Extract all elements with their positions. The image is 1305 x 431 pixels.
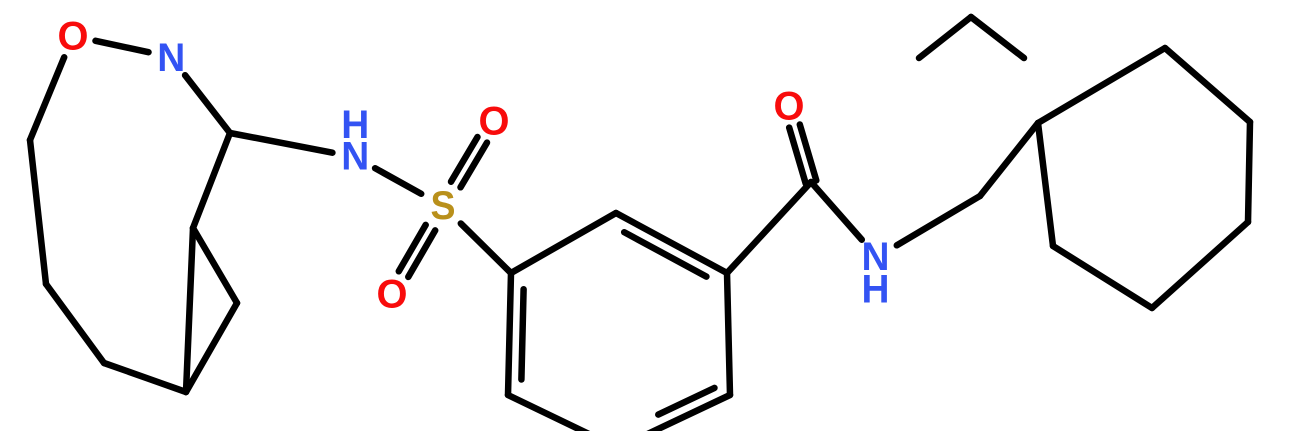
benzene inner D-E — [658, 388, 714, 415]
svg-text:N: N — [157, 36, 185, 80]
C=O amide double bond — [800, 125, 817, 181]
benzene bond A-B — [511, 213, 616, 273]
right ring bond 4-5 — [1152, 222, 1248, 308]
svg-text:O: O — [58, 15, 89, 59]
methyl zigzag left — [919, 17, 971, 58]
right ring bond 1-2 — [1038, 48, 1165, 123]
svg-text:H: H — [862, 268, 890, 312]
wire Y-B — [30, 140, 46, 284]
wire C3-NH1 — [230, 133, 332, 153]
wire N2-C3 — [185, 75, 230, 133]
wire ring-Cc — [727, 182, 811, 273]
svg-text:S: S — [431, 184, 456, 228]
svg-text:O: O — [377, 273, 408, 317]
benzene inner B-C — [624, 232, 706, 276]
wire D-F — [186, 303, 237, 392]
right ring bond 2-3 — [1165, 48, 1250, 122]
wire A-D — [193, 228, 237, 303]
wire G-Y — [46, 284, 104, 363]
wire A-F bridge — [186, 228, 193, 392]
benzene inner F-A — [521, 289, 523, 379]
svg-text:O: O — [774, 85, 805, 129]
wire Cc-NA — [811, 182, 862, 240]
svg-text:O: O — [479, 100, 510, 144]
methyl zigzag right — [971, 17, 1024, 58]
wire V1-R1 — [980, 123, 1038, 196]
wire S-ring — [461, 224, 511, 274]
benzene bond D-E — [618, 395, 730, 431]
benzene bond B-C — [616, 213, 727, 273]
wire B-O1 — [30, 57, 64, 140]
wire NA-V1 — [897, 196, 980, 245]
S=O top double bond — [461, 143, 488, 188]
wire F-G — [104, 363, 186, 392]
benzene bond E-F — [508, 395, 618, 431]
svg-text:H: H — [341, 103, 369, 147]
S=O bottom double bond — [399, 225, 426, 271]
wire C3-A — [193, 133, 230, 228]
right ring bond 3-4 — [1248, 122, 1250, 222]
right ring bond 5-6 — [1053, 246, 1152, 308]
wire NH1-S — [375, 168, 421, 194]
benzene bond C-D — [727, 273, 730, 395]
right ring bond 6-1 — [1038, 123, 1053, 246]
benzene bond F-A — [508, 273, 511, 395]
wire O1-N2 — [96, 41, 149, 52]
